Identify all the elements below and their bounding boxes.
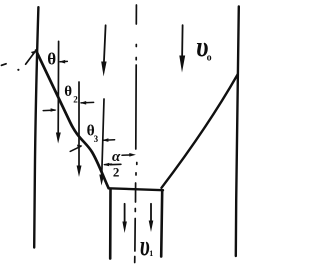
svg-text:θ: θ (64, 84, 72, 100)
svg-text:2: 2 (113, 164, 120, 179)
svg-text:3: 3 (94, 134, 99, 144)
svg-text:o: o (207, 52, 212, 63)
svg-text:2: 2 (73, 95, 78, 105)
svg-text:α: α (112, 149, 121, 165)
svg-text:θ: θ (47, 49, 56, 68)
svg-text:1: 1 (149, 249, 153, 258)
